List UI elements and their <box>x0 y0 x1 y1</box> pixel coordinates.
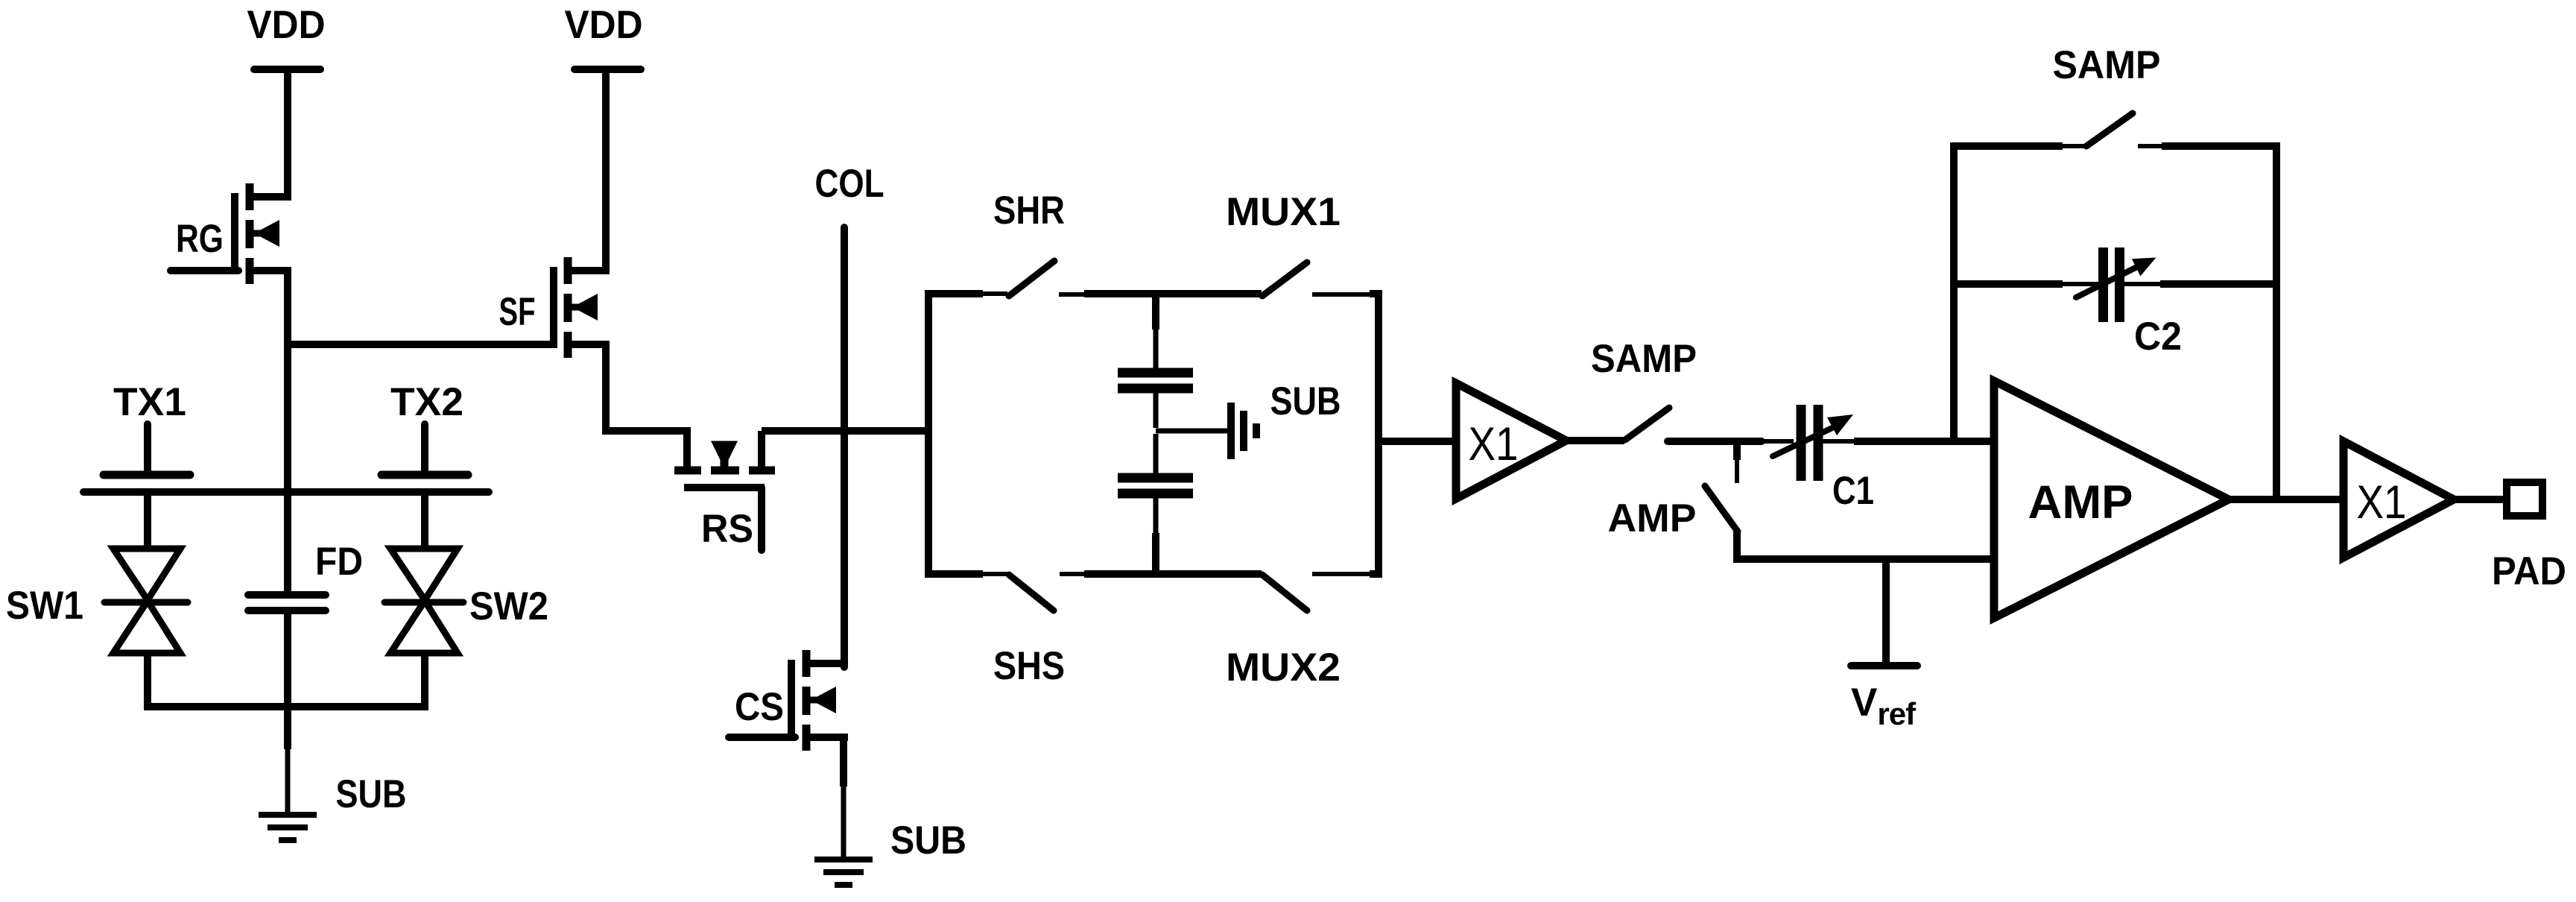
svg-text:AMP: AMP <box>2028 476 2133 529</box>
svg-text:SW2: SW2 <box>469 584 548 628</box>
svg-text:RS: RS <box>701 507 753 551</box>
svg-text:TX1: TX1 <box>113 380 186 424</box>
svg-text:VDD: VDD <box>565 3 643 47</box>
svg-text:RG: RG <box>176 217 224 261</box>
svg-text:MUX2: MUX2 <box>1226 646 1341 690</box>
svg-text:SHS: SHS <box>993 644 1065 688</box>
svg-text:SF: SF <box>499 290 536 334</box>
svg-text:MUX1: MUX1 <box>1226 190 1341 234</box>
svg-text:CS: CS <box>735 685 784 729</box>
svg-text:SHR: SHR <box>993 189 1065 233</box>
svg-text:VDD: VDD <box>247 3 326 47</box>
svg-text:C2: C2 <box>2134 315 2182 359</box>
svg-text:C1: C1 <box>1832 469 1874 513</box>
svg-text:COL: COL <box>815 162 884 206</box>
svg-text:SW1: SW1 <box>6 584 83 628</box>
svg-text:X1: X1 <box>2357 476 2407 529</box>
svg-text:AMP: AMP <box>1608 496 1697 540</box>
svg-text:SUB: SUB <box>890 819 966 862</box>
svg-text:TX2: TX2 <box>390 380 463 424</box>
svg-text:SUB: SUB <box>336 772 407 816</box>
svg-text:PAD: PAD <box>2492 549 2566 593</box>
svg-text:SAMP: SAMP <box>2053 43 2161 87</box>
svg-text:X1: X1 <box>1469 418 1519 470</box>
svg-text:FD: FD <box>315 540 363 584</box>
svg-text:SAMP: SAMP <box>1591 337 1697 381</box>
svg-text:SUB: SUB <box>1270 379 1341 423</box>
